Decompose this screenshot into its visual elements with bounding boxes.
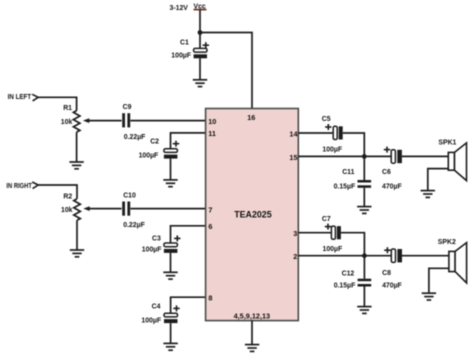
svg-text:0.22µF: 0.22µF: [123, 222, 145, 229]
svg-text:100µF: 100µF: [322, 147, 342, 154]
svg-text:C10: C10: [123, 192, 136, 199]
svg-text:100µF: 100µF: [142, 247, 162, 254]
svg-text:7: 7: [208, 206, 212, 215]
svg-text:2: 2: [293, 252, 297, 261]
svg-text:100µF: 100µF: [171, 53, 191, 60]
svg-text:100µF: 100µF: [323, 246, 343, 253]
svg-text:6: 6: [208, 222, 212, 231]
svg-text:C8: C8: [382, 270, 391, 277]
svg-text:C9: C9: [123, 104, 132, 111]
svg-text:11: 11: [208, 129, 216, 138]
svg-text:3-12V: 3-12V: [170, 5, 189, 12]
svg-text:C1: C1: [180, 40, 189, 47]
svg-text:C5: C5: [322, 116, 331, 123]
svg-text:C6: C6: [382, 169, 391, 176]
svg-text:4,5,9,12,13: 4,5,9,12,13: [234, 311, 271, 320]
svg-text:C7: C7: [322, 216, 331, 223]
svg-text:R2: R2: [63, 193, 72, 200]
svg-text:100µF: 100µF: [141, 317, 161, 324]
svg-text:TEA2025: TEA2025: [234, 209, 272, 219]
svg-text:10k: 10k: [61, 119, 73, 126]
svg-text:10k: 10k: [61, 207, 73, 214]
svg-text:470µF: 470µF: [382, 184, 402, 191]
svg-text:C12: C12: [342, 270, 355, 277]
svg-text:C11: C11: [342, 169, 354, 176]
svg-text:0.15µF: 0.15µF: [334, 184, 356, 191]
svg-text:3: 3: [293, 229, 297, 238]
svg-text:15: 15: [289, 153, 297, 162]
svg-text:0.15µF: 0.15µF: [334, 283, 356, 290]
svg-text:8: 8: [208, 294, 212, 303]
svg-text:10: 10: [208, 117, 216, 126]
svg-text:C4: C4: [152, 304, 161, 311]
svg-text:IN RIGHT: IN RIGHT: [6, 183, 32, 190]
svg-text:C3: C3: [152, 235, 161, 242]
svg-text:14: 14: [289, 129, 298, 138]
svg-text:SPK1: SPK1: [438, 139, 456, 146]
svg-text:16: 16: [247, 113, 255, 122]
svg-text:R1: R1: [63, 105, 72, 112]
svg-text:100µF: 100µF: [139, 152, 159, 159]
svg-text:470µF: 470µF: [382, 283, 402, 290]
svg-text:0.22µF: 0.22µF: [124, 134, 146, 141]
svg-text:IN LEFT: IN LEFT: [8, 94, 32, 101]
svg-text:SPK2: SPK2: [438, 239, 456, 246]
svg-text:C2: C2: [150, 138, 159, 145]
